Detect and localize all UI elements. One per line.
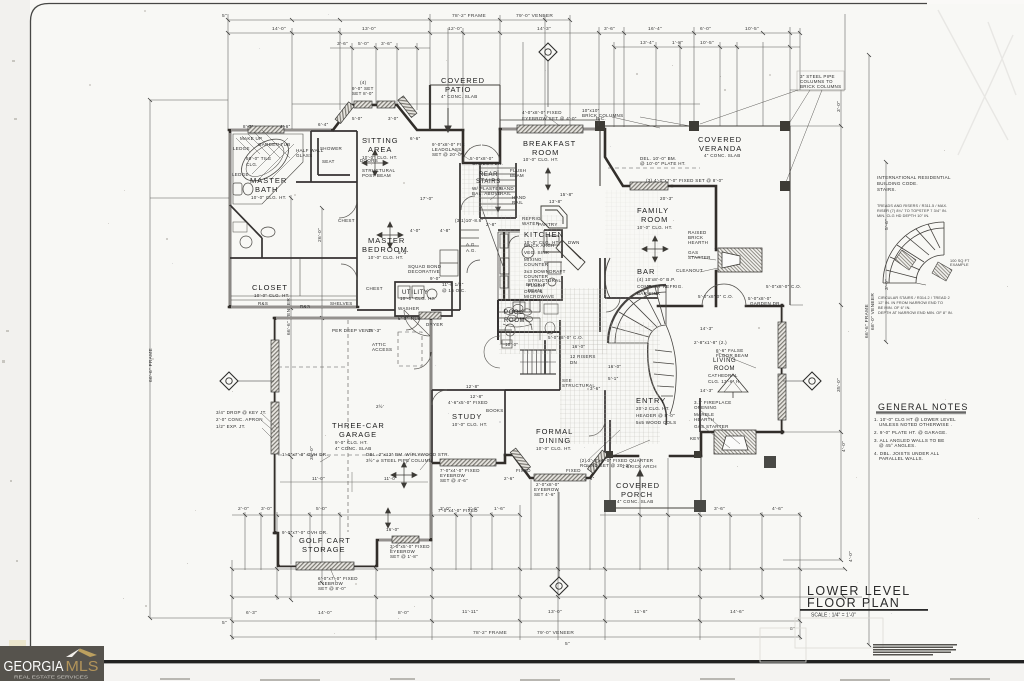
svg-text:35'-0": 35'-0" [836, 378, 842, 392]
svg-text:STAIRS: STAIRS [476, 179, 501, 185]
svg-text:DINING: DINING [539, 436, 571, 445]
breakfast room north wall [500, 129, 672, 186]
svg-text:5'-0"x8'-0" C.O.: 5'-0"x8'-0" C.O. [698, 294, 733, 299]
svg-text:STAIRS.: STAIRS. [877, 187, 896, 192]
svg-text:66'-6" FRAME: 66'-6" FRAME [864, 304, 870, 338]
covered veranda slab edge [600, 126, 790, 305]
svg-text:KEY: KEY [690, 436, 700, 441]
svg-text:14'-3": 14'-3" [537, 26, 551, 32]
left diamond [220, 372, 238, 390]
svg-text:PATIO: PATIO [445, 85, 471, 94]
bath door [339, 200, 357, 218]
left dim columns [150, 100, 322, 618]
master bedroom arrow [388, 222, 393, 248]
hall double door arcs [484, 336, 500, 368]
master bath north wall [229, 129, 333, 132]
svg-text:2'-0": 2'-0" [238, 506, 249, 512]
svg-text:10'-0" CLG. HT.: 10'-0" CLG. HT. [368, 255, 404, 260]
svg-text:ACCESS: ACCESS [372, 347, 392, 352]
study west wall [431, 390, 433, 463]
dimension texts bottom [222, 506, 795, 647]
paper creases top right [938, 10, 1016, 155]
kitchen counters [498, 230, 562, 312]
svg-text:BRICK ARCH: BRICK ARCH [524, 243, 555, 248]
vanity bowls [233, 222, 275, 248]
svg-text:6'-3": 6'-3" [246, 610, 257, 616]
living room north wall w/ garden door opening [658, 305, 783, 308]
svg-text:R&S: R&S [300, 304, 310, 309]
svg-text:4" CONC. SLAB: 4" CONC. SLAB [335, 446, 372, 451]
svg-text:BATH: BATH [255, 185, 278, 194]
svg-text:SCALE : 1/4" = 1'-0": SCALE : 1/4" = 1'-0" [811, 613, 856, 619]
svg-text:GOLF CART: GOLF CART [299, 536, 351, 545]
bottom diamond [550, 577, 568, 595]
svg-text:LEDGE: LEDGE [232, 172, 249, 177]
svg-text:FAMILY: FAMILY [637, 206, 669, 215]
svg-text:14'-0": 14'-0" [272, 26, 286, 32]
svg-text:CLOSET: CLOSET [252, 283, 288, 292]
svg-text:14'-6": 14'-6" [730, 609, 744, 615]
garage inner dim line [280, 472, 428, 492]
window: golf cart storage [392, 536, 419, 543]
svg-text:11'-0": 11'-0" [384, 476, 397, 481]
svg-text:1/2" EXP. JT.: 1/2" EXP. JT. [216, 424, 246, 429]
svg-text:12'-8": 12'-8" [470, 394, 483, 399]
svg-text:2½': 2½' [376, 403, 384, 409]
svg-text:MLS: MLS [66, 659, 99, 675]
svg-text:FLOOR PLAN: FLOOR PLAN [807, 596, 900, 610]
window: study south [440, 459, 496, 466]
svg-text:66'-6" VENEER: 66'-6" VENEER [286, 298, 292, 335]
basement stair run [520, 350, 556, 374]
svg-text:GARDEN TUB: GARDEN TUB [258, 142, 290, 147]
top dim row 3 [330, 47, 800, 48]
entry west wall [609, 420, 611, 456]
svg-text:R&S: R&S [258, 301, 268, 306]
dimension texts top [222, 13, 759, 47]
svg-text:DBL. 2"x12" BM. W/PLYWOOD STR.: DBL. 2"x12" BM. W/PLYWOOD STR. [366, 452, 449, 457]
GeorgiaMLS logo [0, 646, 104, 681]
svg-text:10'-5": 10'-5" [700, 40, 714, 46]
formal dining bay [505, 455, 607, 478]
svg-text:SET @ 20'-0": SET @ 20'-0" [432, 152, 463, 157]
svg-text:VEG. SINK: VEG. SINK [524, 250, 549, 255]
top extension verticals [228, 14, 845, 131]
svg-text:ROOM: ROOM [504, 318, 525, 324]
living room south walls [701, 432, 783, 456]
svg-text:ROOM: ROOM [714, 366, 735, 372]
svg-text:5'-0"x8'-0" C.O.: 5'-0"x8'-0" C.O. [766, 284, 801, 289]
svg-text:1'-0"x7'-0" OVH DR.: 1'-0"x7'-0" OVH DR. [282, 452, 328, 457]
svg-text:12" IN. IN FROM NARROW END TO: 12" IN. IN FROM NARROW END TO [878, 301, 943, 305]
svg-text:3'-0": 3'-0" [261, 506, 272, 512]
window: sitting bay right [377, 101, 395, 108]
svg-text:5": 5" [565, 641, 570, 647]
svg-text:WASHER: WASHER [398, 306, 420, 311]
svg-text:(3) 4'-0"x7'-0" FIXED SET @ 8': (3) 4'-0"x7'-0" FIXED SET @ 8'-0" [646, 178, 723, 183]
powder fixtures extra [540, 304, 558, 340]
stair curved rail to entry [648, 343, 667, 425]
svg-text:PER DEEP VENT: PER DEEP VENT [332, 328, 372, 333]
kitchen walls / cabinets [498, 230, 562, 300]
dining east wall [604, 390, 606, 455]
veranda brick columns [595, 121, 790, 191]
study south wall [432, 455, 505, 463]
wall white cores [230, 129, 783, 565]
closet door [341, 264, 357, 280]
dining west wall [504, 390, 506, 455]
top dim row 2 [228, 32, 800, 34]
svg-text:POOL: POOL [504, 310, 523, 316]
svg-text:1'-6": 1'-6" [494, 506, 505, 512]
svg-text:DN: DN [570, 360, 577, 365]
scan left margin [0, 0, 30, 681]
svg-text:EXAMPLE: EXAMPLE [950, 263, 969, 267]
svg-text:12 RISERS: 12 RISERS [570, 354, 596, 359]
svg-text:CLG. 13'-6" H.: CLG. 13'-6" H. [708, 379, 741, 384]
svg-text:BEAM: BEAM [528, 288, 542, 293]
master tub corner platform [233, 130, 303, 204]
svg-text:5'-3": 5'-3" [398, 250, 409, 255]
svg-text:5'-0": 5'-0" [358, 41, 369, 47]
top diamond [539, 43, 557, 61]
svg-text:BRICK COLUMNS: BRICK COLUMNS [800, 84, 841, 89]
svg-text:GARDEN DR.: GARDEN DR. [750, 301, 781, 306]
svg-text:ENTRY: ENTRY [636, 396, 666, 405]
svg-text:SHELVES: SHELVES [330, 301, 353, 306]
svg-text:VERANDA: VERANDA [699, 144, 742, 153]
svg-text:50'-0" TILE: 50'-0" TILE [246, 156, 271, 161]
svg-text:BAL. ABOVE: BAL. ABOVE [472, 191, 501, 196]
closet south wall [229, 306, 358, 309]
svg-text:9'-0" CLG. HT.: 9'-0" CLG. HT. [335, 440, 368, 445]
svg-text:PANTRY: PANTRY [538, 222, 558, 227]
svg-text:BE MIN. OF 6" IN.: BE MIN. OF 6" IN. [878, 306, 911, 310]
closet shelving [231, 258, 356, 300]
svg-text:RAIL: RAIL [512, 200, 523, 205]
svg-text:BOOKS: BOOKS [486, 408, 504, 413]
svg-text:11'-6": 11'-6" [634, 609, 648, 615]
scanner table dark band bottom [103, 660, 1024, 663]
svg-text:LEDGE: LEDGE [233, 146, 250, 151]
svg-text:9'-0": 9'-0" [430, 276, 441, 281]
svg-text:COMPACT REFRIG.: COMPACT REFRIG. [637, 284, 683, 289]
svg-text:2'-6": 2'-6" [584, 476, 595, 481]
entry south wall at porch [610, 455, 701, 458]
svg-text:REAL ESTATE SERVICES: REAL ESTATE SERVICES [14, 675, 88, 681]
svg-text:16'-0": 16'-0" [608, 364, 621, 369]
rear stairs enclosure [480, 163, 516, 218]
garage west wall [274, 318, 277, 533]
svg-text:RAIL: RAIL [500, 191, 511, 196]
shower enclosure [311, 131, 357, 175]
garage dashed beam lines [278, 320, 430, 532]
svg-text:78'-2" FRAME: 78'-2" FRAME [473, 630, 507, 636]
svg-text:14'-0": 14'-0" [318, 610, 332, 616]
svg-text:6'-0": 6'-0" [700, 26, 711, 32]
svg-text:3'-6": 3'-6" [337, 41, 348, 47]
master bedroom door [404, 310, 430, 336]
hall linen closet [461, 196, 480, 273]
svg-text:FORMAL: FORMAL [536, 427, 573, 436]
svg-text:STUDY: STUDY [452, 412, 482, 421]
svg-text:A.G.: A.G. [466, 248, 476, 253]
svg-text:9'-0"x7'-0" OVH DR.: 9'-0"x7'-0" OVH DR. [282, 530, 328, 535]
window: sitting bay left [354, 101, 372, 108]
svg-text:5'-6": 5'-6" [884, 219, 890, 230]
svg-text:16'-4": 16'-4" [648, 26, 662, 32]
svg-text:2'-0" CONC. APRON: 2'-0" CONC. APRON [216, 417, 263, 422]
garage north wall [274, 317, 431, 320]
svg-text:GAS STARTER: GAS STARTER [694, 424, 729, 429]
svg-text:8'-0": 8'-0" [398, 610, 409, 616]
svg-text:INTERNATIONAL RESIDENTIAL: INTERNATIONAL RESIDENTIAL [877, 175, 951, 180]
svg-text:OPENING: OPENING [694, 405, 717, 410]
svg-text:12'-8": 12'-8" [466, 384, 479, 389]
svg-text:17'-0": 17'-0" [420, 196, 433, 201]
svg-text:10'-0" CLG. HT.: 10'-0" CLG. HT. [400, 296, 436, 301]
master suite west wall [229, 131, 232, 307]
garage door: golf cart [296, 562, 354, 570]
svg-text:3½" ⌀ STEEL PIPE COLUMN: 3½" ⌀ STEEL PIPE COLUMN [366, 457, 432, 463]
bar wall [605, 258, 658, 298]
garden door sitting [463, 145, 500, 163]
vanity wall masterbath [230, 205, 262, 258]
svg-text:BAR SINK: BAR SINK [637, 291, 660, 296]
svg-text:MASTER: MASTER [368, 236, 405, 245]
svg-text:4'-8": 4'-8" [440, 228, 451, 233]
svg-text:68'-0" VENEER: 68'-0" VENEER [870, 293, 876, 330]
garage entry door [414, 352, 431, 369]
svg-text:GARDEN DR.: GARDEN DR. [472, 161, 503, 166]
svg-text:A.G.: A.G. [466, 242, 476, 247]
svg-text:2. 9'-0" PLATE HT. @ GARAGE.: 2. 9'-0" PLATE HT. @ GARAGE. [874, 430, 947, 435]
right dim columns [841, 55, 886, 645]
garage arrow [402, 462, 407, 488]
svg-text:4'-6": 4'-6" [280, 124, 291, 129]
svg-text:5": 5" [222, 620, 227, 626]
svg-text:4'-6"x5'-0" FIXED: 4'-6"x5'-0" FIXED [448, 400, 488, 405]
kitchen west wall thick [503, 232, 505, 300]
svg-text:2'-8"x1'-8" (2.): 2'-8"x1'-8" (2.) [694, 340, 727, 345]
garden door living [702, 284, 746, 306]
svg-text:11'-6 1/2": 11'-6 1/2" [442, 282, 464, 287]
copyright micro text block [873, 644, 957, 656]
svg-text:DEPTH AT NARROW END MIN. OF 8": DEPTH AT NARROW END MIN. OF 8" IN. [878, 311, 953, 315]
svg-text:(4): (4) [360, 80, 367, 85]
living room tree planter [718, 374, 748, 398]
svg-text:CIRCULAR STAIRS / R314.2 / TRE: CIRCULAR STAIRS / R314.2 / TREAD 2 [878, 296, 950, 300]
svg-text:SET 8'-0": SET 8'-0" [352, 91, 374, 96]
living room east wall [781, 305, 784, 433]
margin specks [2, 60, 18, 562]
svg-text:10'-0" CLG. HT.: 10'-0" CLG. HT. [523, 157, 559, 162]
svg-text:HEARTH: HEARTH [688, 240, 708, 245]
svg-text:POST BEAM: POST BEAM [362, 173, 391, 178]
svg-text:20'-3": 20'-3" [660, 196, 673, 201]
svg-text:7'-0"x4'-0" FIXED: 7'-0"x4'-0" FIXED [438, 508, 478, 513]
svg-text:6'-4": 6'-4" [318, 122, 329, 127]
svg-text:5'-1": 5'-1" [608, 376, 619, 381]
svg-text:66'-6" FRAME: 66'-6" FRAME [148, 348, 154, 382]
svg-text:4'-0": 4'-0" [848, 551, 854, 562]
garage east wall [430, 318, 433, 540]
svg-text:16'-0": 16'-0" [572, 344, 585, 349]
utility room [395, 282, 452, 316]
rotated side dimension texts [148, 101, 890, 562]
svg-text:3'-6": 3'-6" [381, 41, 392, 47]
svg-text:GARAGE: GARAGE [339, 430, 377, 439]
right diamond [803, 372, 821, 390]
svg-text:2'-8": 2'-8" [486, 222, 497, 227]
window: living east 1 [778, 322, 786, 368]
steel pipe columns note [797, 71, 844, 91]
svg-text:@ 16 O.C.: @ 16 O.C. [442, 288, 466, 293]
svg-text:CHEST: CHEST [338, 218, 355, 223]
svg-text:4" CONC. SLAB: 4" CONC. SLAB [617, 499, 654, 504]
window: living east 2 [778, 374, 786, 420]
toilet [233, 183, 253, 195]
svg-text:SET @ 8'-0": SET @ 8'-0" [318, 586, 346, 591]
svg-text:DOORS: DOORS [360, 158, 378, 163]
svg-text:SHOWER: SHOWER [320, 146, 343, 151]
family room NE wall [672, 186, 716, 306]
svg-text:COUNTER: COUNTER [524, 262, 549, 267]
svg-text:3/4" DROP @ KEY JT.: 3/4" DROP @ KEY JT. [216, 410, 267, 415]
family room arrow [653, 236, 658, 262]
svg-text:4'-0": 4'-0" [841, 441, 847, 452]
covered patio slab edge [430, 85, 500, 130]
svg-text:5'-0": 5'-0" [352, 116, 363, 121]
svg-text:DECORATIVE: DECORATIVE [408, 269, 440, 274]
entry east wall [699, 398, 701, 432]
svg-text:SITTING: SITTING [362, 136, 399, 145]
svg-text:10'-0" CLG. HT.: 10'-0" CLG. HT. [251, 195, 287, 200]
rear stair rail diagonal [481, 206, 503, 266]
svg-text:GEORGIA: GEORGIA [4, 659, 64, 675]
svg-text:13'-0": 13'-0" [362, 26, 376, 32]
svg-text:COVERED: COVERED [616, 481, 660, 490]
porch piers [604, 456, 776, 512]
svg-text:11'-0": 11'-0" [312, 476, 325, 481]
window: master bath north [248, 126, 284, 133]
svg-text:26'-0": 26'-0" [317, 228, 323, 242]
bedroom chest nook [440, 250, 458, 276]
svg-text:4'-0": 4'-0" [410, 228, 421, 233]
svg-text:4" CONC. SLAB: 4" CONC. SLAB [704, 153, 741, 158]
svg-text:13'-8": 13'-8" [549, 199, 562, 204]
svg-text:8'-3": 8'-3" [243, 124, 254, 129]
svg-text:4'-0"x8'-0" FIXED: 4'-0"x8'-0" FIXED [522, 110, 562, 115]
svg-text:KITCHEN: KITCHEN [524, 230, 564, 239]
svg-text:14'-3": 14'-3" [700, 326, 713, 331]
svg-text:PORCH: PORCH [621, 490, 653, 499]
yellow smudge above logo [9, 640, 26, 646]
svg-text:FIXED: FIXED [516, 468, 531, 473]
utility door [406, 316, 420, 330]
patio arrow down [445, 108, 451, 132]
study door [432, 390, 447, 405]
bar opening arc [606, 298, 620, 312]
bar counter [605, 258, 658, 298]
svg-text:GENERAL NOTES: GENERAL NOTES [878, 402, 968, 412]
svg-text:MIN. CLG HD DEPTH 10" IN.: MIN. CLG HD DEPTH 10" IN. [877, 214, 929, 218]
svg-text:(3,1)10'-8.8": (3,1)10'-8.8" [455, 218, 483, 223]
svg-text:MAKE UP: MAKE UP [240, 136, 262, 141]
utility fixtures [398, 286, 437, 299]
porch arrow up [637, 470, 643, 490]
svg-text:SET @ 1'-8": SET @ 1'-8" [390, 554, 418, 559]
svg-text:5'-0": 5'-0" [316, 506, 327, 512]
svg-text:@ 10'-0" PLATE HT.: @ 10'-0" PLATE HT. [640, 161, 686, 166]
covered porch slab [610, 456, 701, 508]
svg-text:@ 45° ANGLES.: @ 45° ANGLES. [879, 443, 916, 448]
golf cart arrow [386, 508, 391, 528]
svg-text:3'-6": 3'-6" [604, 26, 615, 32]
entry wood columns [606, 451, 701, 458]
svg-text:TREADS AND RISERS / R311.5 / M: TREADS AND RISERS / R311.5 / MAX. [877, 204, 947, 208]
entry-dining door [589, 420, 605, 436]
svg-text:3'-6": 3'-6" [714, 506, 725, 512]
svg-text:MASTER: MASTER [250, 176, 287, 185]
window: family room fixed [630, 182, 668, 190]
svg-text:EYEBROW SET @ 4'-0": EYEBROW SET @ 4'-0" [522, 116, 577, 121]
svg-text:13'-4": 13'-4" [640, 40, 654, 46]
svg-text:STORAGE: STORAGE [302, 545, 346, 554]
svg-text:UNLESS NOTED OTHERWISE .: UNLESS NOTED OTHERWISE . [879, 422, 952, 427]
svg-text:SET @ 4'-6": SET @ 4'-6" [440, 478, 468, 483]
svg-text:2'-6": 2'-6" [504, 476, 515, 481]
svg-text:SEAT: SEAT [322, 159, 335, 164]
svg-text:11'-11": 11'-11" [462, 609, 478, 615]
rear stairs treads [481, 163, 515, 218]
sitting area arrow [373, 150, 378, 176]
svg-text:CLG.: CLG. [246, 162, 258, 167]
svg-text:5'-0" TILE: 5'-0" TILE [398, 316, 421, 321]
garden door jog east of sitting [463, 129, 500, 163]
kitchen angular island [541, 206, 585, 270]
svg-text:15'-8": 15'-8" [560, 192, 573, 197]
svg-text:12'-0": 12'-0" [448, 26, 462, 32]
veranda dashed beam line [608, 167, 700, 169]
powder room fixtures [502, 324, 515, 348]
svg-text:PARALLEL WALLS.: PARALLEL WALLS. [879, 456, 923, 461]
svg-text:4'-6": 4'-6" [772, 506, 783, 512]
garage overhead door 1 [271, 340, 279, 392]
hall/stair walls near entry [505, 258, 600, 390]
svg-text:SET 4'-6": SET 4'-6" [534, 492, 556, 497]
svg-text:ROOM: ROOM [641, 215, 668, 224]
svg-text:8": 8" [790, 626, 795, 632]
study/dining north wall [432, 389, 530, 391]
dim tick marks [148, 18, 888, 647]
window: dining bay south [534, 474, 586, 481]
svg-text:10'-0" CLG. HT.: 10'-0" CLG. HT. [254, 293, 290, 298]
living room fireplace [714, 430, 756, 454]
svg-text:HEADER @ 8'-0": HEADER @ 8'-0" [636, 413, 675, 418]
svg-text:CHEST: CHEST [366, 286, 383, 291]
family room fireplace [718, 248, 762, 272]
svg-text:1'-8": 1'-8" [672, 40, 683, 46]
svg-text:79'-0" VENEER: 79'-0" VENEER [537, 630, 574, 636]
svg-text:BAR: BAR [637, 267, 655, 276]
svg-text:RISER (7) 8¼" TO TOPSTEP 7 3/4: RISER (7) 8¼" TO TOPSTEP 7 3/4" IN. [877, 209, 947, 213]
closet north wall [230, 257, 357, 259]
top dim row 1 [228, 19, 570, 21]
svg-text:4" CONC. SLAB: 4" CONC. SLAB [441, 94, 478, 99]
wall bedroom south [357, 309, 395, 311]
svg-text:REAR: REAR [479, 172, 498, 178]
